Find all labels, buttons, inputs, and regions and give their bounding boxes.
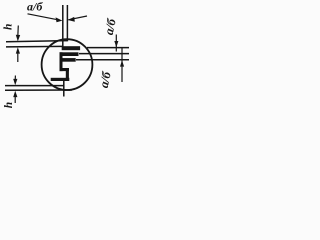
wire right lead 2 [79,53,129,55]
electrode vertical bar [60,52,63,71]
tube envelope circle [42,39,93,90]
wire bottom lead stub [63,81,65,97]
wire line A upper-left lead [6,41,67,42]
dimension top a/b leader line with arrow [28,14,88,22]
electrode bar2 [60,52,79,56]
dimension left-bottom h arrows [13,76,17,104]
wire lead2 vertical from top [66,5,68,41]
wire bottom-left lead 1 [5,85,64,87]
dimension right-bottom a/b arrow [120,48,124,82]
wire bottom-left lead 2 [5,89,72,91]
wire right lead 1 [87,47,129,49]
wire line B lower-left lead [6,45,63,48]
svg-text:а/б: а/б [27,0,43,14]
svg-text:h: h [3,24,15,30]
electrode cathode bar [51,78,70,81]
electrode bar3 [60,58,76,62]
dimension right-top a/b arrow [114,35,118,52]
svg-text:h: h [3,102,15,108]
dimension left-top h arrows [16,26,20,63]
wire right lead 3 [76,59,129,61]
wire lead1 vertical from top to anode bar [62,5,64,48]
electrode step vertical [66,70,69,79]
electrode anode bar [62,46,80,50]
electrode step horizontal [62,68,69,71]
